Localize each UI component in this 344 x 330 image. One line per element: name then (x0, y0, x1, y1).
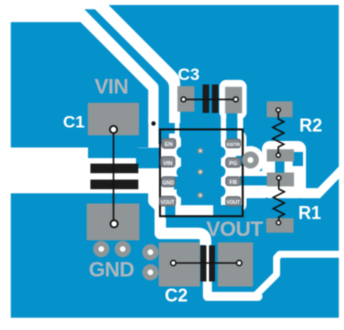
via GND stitching 3 (142, 244, 158, 260)
wire clearance sleeves of SS/TR trace (221, 113, 226, 142)
svg-text:C2: C2 (165, 286, 188, 306)
via on R1 bottom pad (276, 221, 280, 225)
wire C2 lead line (173, 262, 239, 264)
via on C3 right pad (233, 97, 238, 102)
wire channel between C2 capacitor bars (205, 242, 210, 284)
wire FB trace (240, 176, 268, 185)
via GND stitching 2 (115, 241, 131, 257)
wire EN trace (84, 9, 169, 144)
wire VOUT right pad trace down (220, 205, 243, 220)
wire stub right of R2 bottom pad (293, 152, 303, 166)
capacitor C2 left pad (159, 242, 200, 286)
svg-text:R1: R1 (298, 203, 321, 223)
IC pin FB (226, 177, 240, 186)
wire clearance strip around IC right pins (221, 131, 247, 212)
via GND stitching 1 (93, 241, 109, 257)
resistor R2 top pad (267, 101, 293, 117)
via on C2 left pad (171, 260, 176, 265)
via on C1 top pad (110, 126, 117, 133)
IC U1 courtyard outline (160, 129, 243, 216)
node thermal pour scallop bumps left (177, 146, 189, 158)
capacitor C2 body (200, 245, 206, 281)
node VIN pour tongue under C1 top pad (88, 148, 138, 159)
capacitor C2 right pad (218, 242, 253, 286)
resistor R2 body zigzag (273, 110, 284, 155)
svg-text:VOUT: VOUT (206, 218, 263, 241)
svg-text:VOUT: VOUT (161, 200, 175, 206)
svg-text:C3: C3 (178, 65, 200, 84)
svg-text:EN: EN (165, 142, 173, 148)
svg-text:VIN: VIN (163, 161, 172, 167)
IC pin VOUT right (226, 197, 240, 206)
IC pin VOUT left (160, 197, 175, 206)
resistor R1 top pad (267, 173, 294, 187)
wire GND/VOUT split channel left of IC (154, 168, 206, 245)
via on C1 bottom pad (111, 220, 118, 227)
wire SS/TR trace from C3 (226, 108, 237, 142)
capacitor C1 bottom pad (87, 204, 140, 241)
capacitor C3 body (203, 85, 210, 113)
svg-text:VIN: VIN (95, 76, 129, 99)
wire clearance bubble around C3 right pad (219, 80, 246, 119)
capacitor C1 top pad (88, 103, 139, 136)
wire C3 lead line (184, 98, 236, 100)
via GND stitching 4 (142, 264, 158, 280)
via on R2 bottom pad (276, 153, 280, 157)
via thermal 2 (197, 169, 203, 175)
via thermal 3 (197, 192, 203, 198)
IC pin PG (226, 158, 240, 167)
wire GND pad bridge to thermal pour (174, 177, 183, 190)
IC pin GND (162, 177, 176, 187)
svg-text:SS/TR: SS/TR (226, 142, 241, 148)
wire PG bridge to via (236, 156, 249, 166)
IC pin EN (162, 139, 176, 148)
capacitor C3 left pad (177, 86, 194, 112)
wire C1 lead line (113, 130, 115, 224)
resistor R1 body zigzag (273, 178, 284, 223)
wire clearance island around R2 bottom / R1 top pads (262, 141, 306, 198)
wire EN trace clearance channel (diagonal) (78, 0, 164, 123)
capacitor C3 right pad (225, 87, 242, 114)
IC pin VIN (161, 157, 175, 167)
wire VOUT strip under IC (166, 216, 243, 227)
via on R1 top pad (277, 176, 281, 180)
wire channel below C2 to right board edge (207, 278, 258, 296)
via on C3 left pad (181, 97, 186, 102)
via on R2 top pad (276, 108, 280, 112)
svg-text:R2: R2 (299, 115, 322, 135)
wire clearance left of EN trace below bend (148, 118, 158, 148)
capacitor C1 body (90, 164, 138, 174)
wire clearance strip around IC left pins (156, 134, 181, 210)
via on C2 right pad (237, 260, 242, 265)
wire clearance below IC thermal pour (166, 205, 213, 216)
svg-text:GND: GND (89, 258, 135, 281)
wire C1 clearance band (0, 148, 150, 194)
svg-text:FB: FB (229, 180, 236, 186)
svg-text:C1: C1 (63, 112, 85, 131)
via PG donut (242, 152, 259, 169)
resistor R2 bottom pad (267, 149, 294, 161)
wire clearance around FB trace (236, 171, 266, 198)
svg-text:VOUT: VOUT (226, 200, 240, 206)
svg-text:GND: GND (162, 181, 174, 187)
wire FB junction stub between R2/R1 pads (275, 160, 284, 174)
node thermal pour scallop bumps right (214, 146, 226, 158)
resistor R1 bottom pad (266, 218, 293, 233)
via black near IC top-left (151, 121, 155, 125)
wire clearance ring around PG via (236, 146, 264, 174)
svg-text:PG: PG (229, 161, 237, 167)
wire VIN bridge to IC pin VIN (136, 148, 161, 169)
IC pin SS/TR (226, 139, 240, 147)
wire FB channel to right board edge (300, 166, 344, 198)
via thermal 1 (197, 148, 203, 154)
wire VOUT left pad trace down (165, 203, 175, 218)
